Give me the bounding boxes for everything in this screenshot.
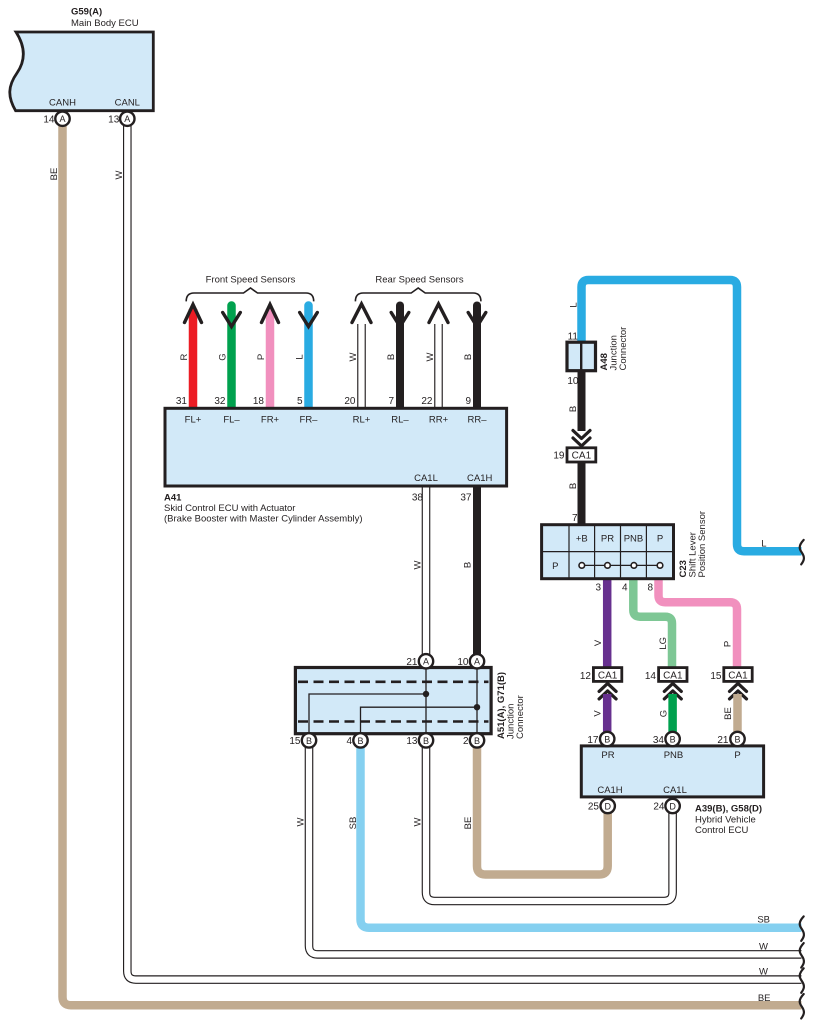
A51(A), G71(B) Junction Connector box xyxy=(295,668,491,734)
A48 Junction Connector box xyxy=(567,342,596,371)
svg-text:Skid Control ECU with Actuator: Skid Control ECU with Actuator xyxy=(164,503,295,514)
svg-text:20: 20 xyxy=(344,396,356,407)
svg-text:4: 4 xyxy=(622,583,628,594)
pin 4 B of A51 xyxy=(346,733,367,747)
svg-text:BE: BE xyxy=(723,707,734,720)
wire SB from A51 pin 4 to right edge xyxy=(361,741,802,928)
svg-text:21: 21 xyxy=(406,657,418,668)
svg-text:5: 5 xyxy=(297,396,303,407)
svg-text:A: A xyxy=(423,657,429,667)
svg-text:19: 19 xyxy=(553,451,565,462)
svg-text:D: D xyxy=(669,801,676,811)
connector CA1 pin 15 xyxy=(710,668,752,682)
pin 17 B of A39 xyxy=(587,732,614,746)
break symbol on L wire xyxy=(800,540,804,565)
svg-text:A: A xyxy=(474,657,480,667)
svg-text:CA1L: CA1L xyxy=(414,473,438,484)
wire G (FL-) into A41 pin 32 xyxy=(227,306,236,411)
svg-text:7: 7 xyxy=(388,396,394,407)
svg-text:CA1H: CA1H xyxy=(597,785,622,796)
svg-text:12: 12 xyxy=(580,671,592,682)
svg-text:A: A xyxy=(124,114,130,124)
wire P from C23 pin 8 to CA1 pin 15 xyxy=(659,579,738,668)
wire BE from A51 pin 2 to A39 pin 25 xyxy=(477,741,608,875)
pin 15 B of A51 xyxy=(289,733,316,747)
svg-text:P: P xyxy=(734,750,740,761)
break symbol on BE wire xyxy=(800,994,804,1019)
svg-text:31: 31 xyxy=(176,396,188,407)
svg-text:25: 25 xyxy=(588,802,600,813)
svg-text:G59(A): G59(A) xyxy=(71,7,102,18)
svg-text:CA1: CA1 xyxy=(572,451,592,462)
arrow up on FL+ xyxy=(185,305,202,323)
svg-text:P: P xyxy=(723,641,734,647)
A39(B), G58(D) Hybrid Vehicle Control ECU box xyxy=(581,746,763,797)
svg-text:32: 32 xyxy=(214,396,226,407)
svg-text:PNB: PNB xyxy=(624,534,644,545)
svg-text:10: 10 xyxy=(457,657,469,668)
wire BE from G59 pin 14 to right edge xyxy=(63,119,802,1005)
arrow up on RL+ xyxy=(352,304,371,323)
pin 13 B of A51 xyxy=(406,733,433,747)
wire B from A48 pin 10 to CA1 pin 19 xyxy=(578,371,586,432)
svg-text:LG: LG xyxy=(658,637,669,650)
svg-text:B: B xyxy=(568,483,579,489)
wire B from A41 pin 37 (CA1H) to A51 pin 10 xyxy=(473,486,481,655)
pin 2 B of A51 xyxy=(463,733,484,747)
svg-text:B: B xyxy=(423,736,429,746)
wire L from A48 pin 11 to right edge xyxy=(582,280,802,551)
svg-text:17: 17 xyxy=(587,735,599,746)
svg-text:14: 14 xyxy=(645,671,657,682)
svg-text:B: B xyxy=(386,354,397,360)
svg-text:Hybrid Vehicle: Hybrid Vehicle xyxy=(695,814,756,825)
svg-text:22: 22 xyxy=(421,396,433,407)
svg-text:BE: BE xyxy=(463,817,474,830)
svg-text:Main Body ECU: Main Body ECU xyxy=(71,18,139,29)
svg-text:10: 10 xyxy=(567,376,579,387)
svg-text:W: W xyxy=(296,817,307,826)
svg-text:13: 13 xyxy=(406,736,418,747)
pin 25 D of A39 xyxy=(588,799,615,813)
svg-text:RL–: RL– xyxy=(391,414,409,425)
svg-text:B: B xyxy=(463,562,474,568)
svg-text:B: B xyxy=(306,736,312,746)
svg-text:W: W xyxy=(759,941,768,952)
connector CA1 pin 19 xyxy=(553,448,595,462)
pin 14 A of G59 xyxy=(43,112,69,126)
svg-text:B: B xyxy=(568,406,579,412)
svg-text:B: B xyxy=(734,734,740,744)
svg-text:W: W xyxy=(413,560,424,569)
svg-text:P: P xyxy=(657,534,663,545)
arrow double up into CA1 14 xyxy=(664,683,681,699)
svg-text:D: D xyxy=(604,801,611,811)
pin 34 B of A39 xyxy=(653,732,680,746)
svg-text:W: W xyxy=(348,352,359,361)
wire LG from C23 pin 4 to CA1 pin 14 xyxy=(633,579,672,668)
svg-text:A: A xyxy=(59,114,65,124)
pin 24 D of A39 xyxy=(653,799,679,813)
G59(A) Main Body ECU box xyxy=(10,7,154,111)
svg-text:9: 9 xyxy=(465,396,471,407)
arrow double down into CA1 19 xyxy=(573,431,590,447)
svg-text:8: 8 xyxy=(647,583,653,594)
Rear Speed Sensors brace xyxy=(355,288,481,301)
svg-text:21: 21 xyxy=(717,735,729,746)
pin 21 B of A39 xyxy=(717,732,744,746)
svg-text:37: 37 xyxy=(460,493,472,504)
svg-text:CANH: CANH xyxy=(49,97,76,108)
connector CA1 pin 12 xyxy=(580,668,622,682)
svg-text:4: 4 xyxy=(346,736,352,747)
wire W from A51 pin 13 to A39 pin 24 xyxy=(426,741,673,901)
arrow down on RL- xyxy=(391,313,409,327)
svg-text:15: 15 xyxy=(710,671,722,682)
junction dot on pin 21 wire xyxy=(423,691,429,697)
svg-text:+B: +B xyxy=(576,534,588,545)
arrow down on RR- xyxy=(468,313,486,327)
A41 designation text xyxy=(164,493,363,525)
svg-text:B: B xyxy=(604,734,610,744)
svg-text:24: 24 xyxy=(653,802,665,813)
svg-text:A39(B), G58(D): A39(B), G58(D) xyxy=(695,804,762,815)
svg-text:CA1L: CA1L xyxy=(663,785,687,796)
svg-text:B: B xyxy=(357,736,363,746)
arrow double up into CA1 12 xyxy=(599,683,616,699)
break symbol on W wire xyxy=(800,943,804,968)
svg-text:V: V xyxy=(593,639,604,646)
svg-text:L: L xyxy=(761,538,766,549)
A41 Skid Control ECU box xyxy=(165,408,507,486)
svg-text:3: 3 xyxy=(595,583,601,594)
svg-text:Control ECU: Control ECU xyxy=(695,825,748,836)
svg-text:FR–: FR– xyxy=(300,414,319,425)
svg-text:B: B xyxy=(474,736,480,746)
svg-text:B: B xyxy=(670,734,676,744)
svg-text:L: L xyxy=(295,354,306,359)
svg-text:V: V xyxy=(593,710,604,717)
svg-text:FL–: FL– xyxy=(223,414,240,425)
pin 21 A of A51 xyxy=(406,654,433,668)
svg-text:P: P xyxy=(256,354,267,360)
pin 13 A of G59 xyxy=(108,112,134,126)
svg-text:PNB: PNB xyxy=(664,750,684,761)
svg-text:G: G xyxy=(218,353,229,360)
svg-text:W: W xyxy=(759,967,768,978)
connector CA1 pin 14 xyxy=(645,668,687,682)
svg-text:CA1H: CA1H xyxy=(467,473,492,484)
svg-text:PR: PR xyxy=(601,750,614,761)
svg-text:R: R xyxy=(179,353,190,360)
svg-text:15: 15 xyxy=(289,736,301,747)
svg-text:BE: BE xyxy=(758,993,771,1004)
svg-text:CA1: CA1 xyxy=(598,670,618,681)
wire G from CA1 14 to A39 pin 34 xyxy=(668,694,677,733)
pin 10 A of A51 xyxy=(457,654,484,668)
svg-text:CA1: CA1 xyxy=(663,670,683,681)
svg-text:FR+: FR+ xyxy=(261,414,280,425)
wire W from G59 pin 13 to right edge xyxy=(127,119,801,980)
wire B (RR-) into A41 pin 9 xyxy=(473,306,481,411)
svg-text:Front Speed Sensors: Front Speed Sensors xyxy=(206,275,296,286)
svg-text:B: B xyxy=(463,354,474,360)
Front Speed Sensors brace xyxy=(186,288,314,301)
C23 switch contacts xyxy=(579,563,663,569)
wire W (RR+) into A41 pin 22 xyxy=(434,324,443,410)
wire V from C23 pin 3 to CA1 pin 12 xyxy=(603,579,612,668)
svg-text:A41: A41 xyxy=(164,493,182,504)
svg-text:34: 34 xyxy=(653,735,665,746)
wire B from CA1 19 to C23 pin 7 xyxy=(578,462,586,526)
break symbol on W CANL wire xyxy=(800,968,804,993)
svg-text:18: 18 xyxy=(253,396,265,407)
svg-text:13: 13 xyxy=(108,114,120,125)
svg-text:P: P xyxy=(552,561,558,572)
svg-text:(Brake Booster with Master Cyl: (Brake Booster with Master Cylinder Asse… xyxy=(164,514,363,525)
arrow up on RR+ xyxy=(429,304,448,323)
svg-text:2: 2 xyxy=(463,736,469,747)
svg-text:14: 14 xyxy=(43,114,55,125)
C23 Shift Lever Position Sensor box xyxy=(542,525,674,579)
wire V from CA1 12 to A39 pin 17 xyxy=(603,694,612,733)
wire BE from CA1 15 to A39 pin 21 xyxy=(733,694,742,733)
wire P (FR+) into A41 pin 18 xyxy=(266,306,274,411)
break symbol on SB wire xyxy=(800,916,804,941)
svg-text:RL+: RL+ xyxy=(353,414,371,425)
svg-text:L: L xyxy=(569,302,580,307)
A39 designation text xyxy=(695,804,762,837)
svg-text:G: G xyxy=(658,710,669,717)
wire W (RL+) into A41 pin 20 xyxy=(357,324,366,410)
svg-text:FL+: FL+ xyxy=(185,414,202,425)
svg-text:RR–: RR– xyxy=(467,414,487,425)
junction dot on pin 10 wire xyxy=(474,704,480,710)
svg-text:CA1: CA1 xyxy=(728,670,748,681)
arrow up on FR+ xyxy=(262,305,279,323)
arrow down on FR- xyxy=(300,313,318,327)
svg-text:CANL: CANL xyxy=(115,97,140,108)
svg-text:PR: PR xyxy=(601,534,614,545)
wire W from A51 pin 15 to right edge xyxy=(309,741,802,954)
svg-text:W: W xyxy=(413,817,424,826)
svg-text:7: 7 xyxy=(572,513,578,524)
wire R (FL+) into A41 pin 31 xyxy=(189,306,197,411)
internal wire from pin 21 to pins 13 and 15 xyxy=(309,668,426,734)
svg-text:RR+: RR+ xyxy=(429,414,449,425)
svg-text:SB: SB xyxy=(348,817,359,830)
svg-text:Rear Speed Sensors: Rear Speed Sensors xyxy=(375,275,463,286)
svg-text:W: W xyxy=(114,170,125,179)
arrow double up into CA1 15 xyxy=(730,683,747,699)
wire W from A41 pin 38 (CA1L) to A51 pin 21 xyxy=(422,486,431,655)
svg-text:BE: BE xyxy=(49,168,60,181)
svg-text:38: 38 xyxy=(412,493,424,504)
internal wire from pin 10 to pins 2 and 4 xyxy=(361,668,478,734)
svg-text:W: W xyxy=(425,352,436,361)
arrow down on FL- xyxy=(223,313,241,327)
wire L (FR-) into A41 pin 5 xyxy=(304,306,313,411)
wire B (RL-) into A41 pin 7 xyxy=(396,306,404,411)
svg-text:SB: SB xyxy=(757,915,770,926)
